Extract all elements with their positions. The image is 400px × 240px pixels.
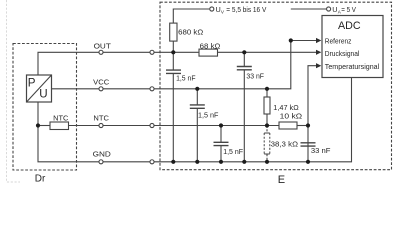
arrow into Drucksignal bbox=[316, 50, 321, 55]
faint page border left bbox=[7, 0, 21, 182]
node NTC sensor junction bbox=[36, 123, 40, 127]
svg-text:10 kΩ: 10 kΩ bbox=[280, 112, 303, 121]
svg-text:= 5 V: = 5 V bbox=[341, 5, 356, 14]
wire NTC middle bbox=[69, 125, 280, 127]
resistor 680k bbox=[170, 23, 177, 41]
wire C3 from NTC down bbox=[220, 126, 222, 162]
svg-text:68 kΩ: 68 kΩ bbox=[200, 41, 221, 50]
resistor 10k bbox=[279, 122, 297, 129]
pin NTC ECU side bbox=[150, 123, 154, 127]
svg-text:GND: GND bbox=[93, 149, 111, 158]
ECU box E (dashed) bbox=[160, 2, 392, 170]
svg-text:33 nF: 33 nF bbox=[246, 72, 264, 81]
pin NTC sensor side bbox=[99, 123, 103, 127]
svg-text:U: U bbox=[332, 5, 337, 14]
svg-text:38,3 kΩ: 38,3 kΩ bbox=[271, 139, 299, 148]
svg-text:OUT: OUT bbox=[94, 41, 112, 50]
node GND/C2 bbox=[195, 160, 199, 164]
node NTC/C3 bbox=[219, 123, 223, 127]
pin GND sensor side bbox=[99, 160, 103, 164]
ADC box bbox=[322, 16, 383, 78]
pin VCC sensor side bbox=[99, 87, 103, 91]
node GND/38.3k bbox=[265, 160, 269, 164]
wire OUT from sensor top bbox=[38, 52, 199, 75]
wire OUT after 68k to ADC bbox=[218, 51, 317, 53]
wire NTC right of 10k bbox=[297, 125, 308, 127]
capacitor C3 1.5nF plates bbox=[214, 142, 229, 145]
svg-text:33 nF: 33 nF bbox=[311, 146, 331, 155]
wire 1.47k pullup bbox=[266, 89, 268, 126]
node GND/C4 bbox=[242, 160, 246, 164]
wire C1 to ground bbox=[172, 73, 174, 161]
svg-text:E: E bbox=[278, 174, 285, 186]
svg-text:Drucksignal: Drucksignal bbox=[325, 49, 360, 58]
wire VCC bbox=[52, 41, 291, 89]
wire GND rail bbox=[38, 78, 352, 162]
svg-text:680 kΩ: 680 kΩ bbox=[178, 28, 204, 37]
svg-text:1,5 nF: 1,5 nF bbox=[198, 111, 219, 120]
sensor box Dr (dashed) bbox=[13, 44, 77, 171]
wire 38.3k dashed stubs bbox=[266, 126, 268, 162]
pin OUT sensor side bbox=[99, 50, 103, 54]
node NTC/1.47k/38.3k bbox=[265, 123, 269, 127]
svg-text:= 5,5 bis 16 V: = 5,5 bis 16 V bbox=[226, 5, 266, 14]
capacitor C1 1.5nF plates bbox=[166, 67, 316, 147]
node VCC/C2 bbox=[195, 87, 199, 91]
svg-text:Temperatursignal: Temperatursignal bbox=[325, 62, 380, 71]
svg-text:U: U bbox=[39, 88, 47, 101]
resistor 38.3k (optional, dashed) bbox=[264, 133, 270, 154]
wire UA 5V supply bbox=[291, 8, 326, 10]
P/U diagonal bbox=[27, 75, 52, 102]
resistor 68k bbox=[199, 49, 218, 56]
wire Temperatursignal bbox=[308, 66, 317, 126]
svg-text:P: P bbox=[28, 77, 36, 90]
node OUT/33nF bbox=[242, 50, 246, 54]
svg-text:ADC: ADC bbox=[338, 20, 361, 32]
wire C2 from VCC down bbox=[196, 89, 198, 162]
pin GND ECU side bbox=[150, 160, 154, 164]
sensor cell P/U box U1 bbox=[27, 75, 52, 102]
svg-text:NTC: NTC bbox=[53, 113, 68, 122]
wire C5 from NTC junction down bbox=[307, 126, 309, 162]
capacitor C5 33nF plates bbox=[301, 143, 316, 146]
resistor NTC bbox=[50, 122, 69, 130]
svg-text:Referenz: Referenz bbox=[325, 36, 352, 45]
svg-text:Dr: Dr bbox=[35, 174, 46, 185]
arrow into Temperatursignal bbox=[316, 63, 321, 68]
terminal Uv bbox=[210, 7, 214, 11]
node NTC/Temp/33nF bbox=[306, 123, 310, 127]
capacitor C2 1.5nF plates bbox=[190, 105, 205, 108]
svg-text:1,5 nF: 1,5 nF bbox=[223, 147, 243, 156]
arrow into Referenz bbox=[316, 38, 321, 43]
node GND/C3 bbox=[219, 160, 223, 164]
connector pins (open circles) bbox=[99, 7, 331, 164]
wire 680k to OUT node bbox=[172, 41, 174, 70]
svg-text:NTC: NTC bbox=[93, 114, 109, 123]
svg-text:1,5 nF: 1,5 nF bbox=[176, 73, 196, 82]
capacitor C4 33nF plates bbox=[237, 67, 252, 70]
node VCC/1.47k bbox=[265, 87, 269, 91]
node OUT/680k bbox=[171, 50, 175, 54]
node GND/C1 bbox=[171, 160, 175, 164]
svg-text:1,47 kΩ: 1,47 kΩ bbox=[273, 103, 299, 112]
svg-text:VCC: VCC bbox=[93, 78, 109, 87]
terminal UA bbox=[327, 7, 331, 11]
pin VCC ECU side bbox=[150, 87, 154, 91]
resistor 1.47k bbox=[264, 97, 270, 114]
pin OUT ECU side bbox=[150, 50, 154, 54]
wire C4 from OUT down bbox=[243, 52, 245, 162]
wire Referenz bbox=[291, 40, 317, 42]
node Referenz/5V bbox=[289, 38, 293, 42]
wire NTC left segment bbox=[38, 125, 50, 127]
wire Uv supply to 680k bbox=[173, 9, 209, 23]
node GND/C5 bbox=[306, 160, 310, 164]
